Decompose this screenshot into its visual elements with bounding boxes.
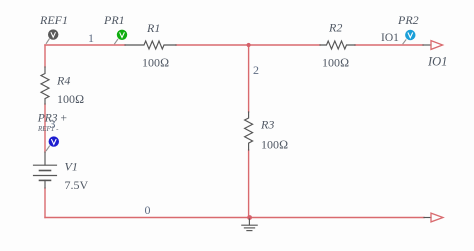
svg-text:R1: R1: [146, 21, 160, 35]
svg-text:IO1: IO1: [381, 32, 399, 44]
svg-text:PR1: PR1: [103, 13, 125, 27]
svg-text:R3: R3: [260, 118, 274, 132]
svg-text:R2: R2: [328, 21, 342, 35]
svg-text:REF1 -: REF1 -: [37, 125, 59, 133]
svg-text:1: 1: [88, 31, 94, 45]
svg-text:PR2: PR2: [397, 13, 419, 27]
svg-text:100Ω: 100Ω: [142, 56, 169, 70]
svg-text:V1: V1: [65, 160, 78, 174]
svg-text:PR3 +: PR3 +: [37, 113, 68, 125]
svg-text:7.5V: 7.5V: [65, 178, 89, 192]
svg-text:REF1: REF1: [39, 13, 68, 27]
svg-text:0: 0: [145, 203, 151, 217]
svg-text:IO1: IO1: [427, 55, 447, 69]
svg-text:100Ω: 100Ω: [57, 92, 84, 106]
svg-text:100Ω: 100Ω: [261, 138, 288, 152]
svg-text:100Ω: 100Ω: [322, 56, 349, 70]
svg-text:2: 2: [253, 63, 259, 77]
svg-text:R4: R4: [56, 74, 70, 88]
